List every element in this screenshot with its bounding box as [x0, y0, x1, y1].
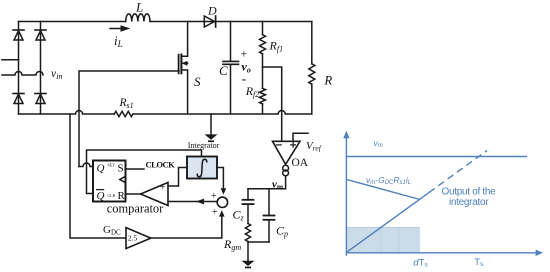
svg-text:Integrator: Integrator [188, 141, 220, 150]
svg-text:+: + [212, 207, 218, 218]
svg-text:comparator: comparator [107, 202, 164, 216]
svg-text:D: D [207, 4, 217, 18]
label Rgm [223, 237, 241, 252]
label plus vo minus [241, 47, 251, 87]
diode bridge bottom-right [35, 94, 46, 104]
wire integrator output to summer [217, 168, 226, 195]
wire integrator to comparator plus [168, 168, 187, 187]
diode D [204, 16, 215, 27]
label C [219, 63, 228, 78]
flip-flop U1 box [93, 161, 126, 202]
svg-text:Rf1: Rf1 [269, 39, 284, 54]
falling line vm-GdcRs1iL [346, 179, 420, 199]
label iL [114, 33, 123, 49]
inductor L label [135, 0, 143, 15]
svg-text:Rgm: Rgm [223, 237, 241, 252]
current arrow iL [110, 25, 130, 31]
svg-text:Cp: Cp [276, 224, 288, 239]
svg-text:vm: vm [272, 179, 283, 192]
wire divider tap to OA [263, 67, 282, 141]
label Cz [233, 208, 245, 223]
summer plus labels [211, 191, 218, 218]
x axis [346, 250, 543, 256]
svg-text:dTs: dTs [413, 257, 428, 268]
svg-text:Rf2: Rf2 [245, 84, 260, 99]
label D [207, 4, 217, 18]
svg-text:vm: vm [374, 138, 383, 149]
shaded area under ramp [346, 227, 419, 252]
svg-text:SET: SET [108, 163, 116, 168]
OA output double circle [283, 165, 289, 176]
svg-text:S: S [194, 74, 201, 89]
resistor R load [309, 22, 315, 115]
ground under rail [205, 114, 218, 142]
transistor S source lead with body arrow [181, 61, 187, 114]
integrator symbol [197, 159, 206, 176]
resistor Rf2 [260, 67, 266, 114]
wire Rgm bottom junction [248, 242, 269, 261]
svg-text:Rs1: Rs1 [119, 97, 134, 110]
svg-text:R: R [324, 74, 333, 88]
wire comparator output to R [126, 193, 141, 195]
label CLOCK [146, 159, 176, 169]
label Vref [306, 140, 322, 153]
wire top rail [19, 21, 312, 23]
wire gate drive from Q [79, 71, 179, 167]
label dTs [413, 257, 428, 268]
svg-text:+: + [241, 47, 248, 61]
wire bottom rail right with jump [134, 111, 312, 114]
label S [194, 74, 201, 89]
resistor Rgm [245, 224, 250, 242]
wire Vref input [293, 133, 308, 141]
wire AC input stub 2 with jumps [2, 72, 43, 76]
svg-text:2.5: 2.5 [128, 234, 138, 243]
svg-text:GDC: GDC [103, 224, 121, 237]
svg-text:Q: Q [97, 163, 105, 175]
label output of the integrator [442, 187, 497, 209]
wire GDC output to summer [151, 210, 225, 238]
flip-flop labels [97, 163, 126, 202]
label OA [292, 157, 309, 169]
svg-text:C: C [219, 63, 228, 78]
capacitor C [223, 22, 239, 115]
label Cp [276, 224, 288, 239]
diode bridge bottom-left [13, 94, 24, 104]
svg-text:S: S [118, 163, 124, 175]
svg-text:integrator: integrator [449, 197, 489, 208]
label Integrator [188, 141, 220, 150]
capacitor Cz [243, 189, 254, 224]
label vm [272, 179, 283, 192]
label vm graph [374, 138, 383, 149]
label vm-GdcRs1iL [366, 175, 411, 186]
diode bridge top-left [13, 30, 24, 40]
svg-text:Cz: Cz [233, 208, 245, 223]
integrator box [187, 157, 217, 179]
label R [324, 74, 333, 88]
wire OA output to vm rail [248, 176, 286, 189]
comparator plus minus [160, 183, 166, 209]
svg-text:Output of the: Output of the [442, 187, 497, 198]
node vin label [51, 68, 62, 81]
comparator triangle [141, 183, 169, 206]
flip-flop clock wedge [120, 176, 126, 182]
transistor S gate bar [178, 55, 180, 74]
wire S to clock [126, 168, 145, 170]
wire Qbar to integrator [87, 150, 202, 194]
OA input signs [277, 143, 296, 148]
wire bottom rail left [19, 111, 115, 114]
label GDC gain [128, 234, 138, 243]
vm level line [346, 156, 527, 158]
svg-text:vin: vin [51, 68, 62, 81]
svg-text:iL: iL [114, 33, 123, 49]
flip-flop Qbar overline [97, 189, 104, 191]
label comparator [107, 202, 164, 216]
capacitor Cp [264, 189, 275, 242]
op-amp OA triangle [273, 141, 301, 164]
svg-text:+: + [160, 183, 166, 194]
label Rf2 [245, 84, 260, 99]
label GDC [103, 224, 121, 237]
svg-text:Ts: Ts [474, 257, 484, 268]
y axis [343, 131, 349, 256]
svg-text:CLOCK: CLOCK [146, 159, 176, 169]
amplifier GDC [126, 228, 151, 249]
label Rf1 [269, 39, 284, 54]
diode bridge top-right [35, 30, 46, 40]
inductor L [126, 14, 150, 22]
svg-text:CLR: CLR [108, 193, 116, 198]
wire bridge left branch [18, 22, 20, 115]
wire AC input stub 1 [2, 59, 19, 61]
resistor Rf1 [260, 22, 266, 68]
wire summer to comparator minus with arrow [168, 199, 217, 205]
svg-text:R: R [118, 190, 126, 202]
resistor Rs1 [114, 111, 133, 116]
transistor S (MOSFET) drain lead [181, 22, 187, 57]
wire current sense to GDC [70, 114, 126, 238]
svg-text:Vref: Vref [306, 140, 322, 153]
wire bridge right branch [40, 22, 42, 115]
label Ts [474, 257, 484, 268]
svg-text:Q: Q [97, 190, 105, 202]
label Rs1 [119, 97, 134, 110]
ground under Rgm [242, 261, 255, 269]
summing junction [217, 197, 227, 207]
svg-text:+: + [211, 191, 217, 202]
svg-text:L: L [135, 0, 143, 15]
svg-text:OA: OA [292, 157, 309, 169]
transistor S channel bar [180, 55, 182, 74]
svg-text:vm-GDCRs1iL: vm-GDCRs1iL [366, 175, 411, 186]
integrator ramp solid [347, 193, 430, 253]
integrator ramp dashed [429, 151, 487, 193]
